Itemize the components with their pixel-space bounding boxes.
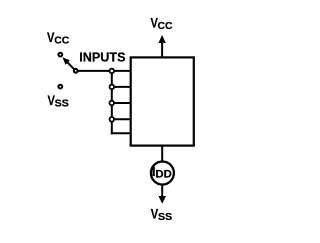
wire: input 4 stub <box>112 118 131 120</box>
switch blade wire <box>68 63 76 71</box>
label Vcc (switch upper contact) <box>47 30 70 47</box>
svg-text:CC: CC <box>158 21 174 32</box>
Vss contact circle <box>58 85 62 89</box>
svg-text:INPUTS: INPUTS <box>79 50 126 65</box>
current meter IDD circle <box>151 162 174 185</box>
DUT input pin circle 2 <box>110 85 115 90</box>
wire: input 3 stub <box>112 102 131 104</box>
DUT input pin circle 3 <box>110 101 115 106</box>
wire: Vcc supply lead <box>161 42 163 58</box>
svg-text:CC: CC <box>54 35 70 46</box>
arrow: Vss down arrowhead <box>158 196 166 204</box>
svg-text:SS: SS <box>55 99 69 110</box>
switch blade arrowhead <box>62 57 70 65</box>
DUT box <box>131 57 194 145</box>
svg-text:SS: SS <box>158 212 172 223</box>
svg-text:DD: DD <box>155 169 171 181</box>
label Vcc (top) <box>151 15 174 32</box>
wire: switch output to DUT input 1 <box>76 70 131 72</box>
label Vss (switch lower contact) <box>48 93 70 110</box>
label Vss (bottom) <box>151 207 173 224</box>
DUT input pin circle 4 <box>110 117 115 122</box>
DUT input pin circle 1 <box>110 69 115 74</box>
label Idd <box>152 164 172 180</box>
wire: DUT to Idd meter <box>161 146 163 162</box>
switch pivot contact circle <box>74 69 78 73</box>
Vcc contact circle <box>58 53 62 57</box>
wire: vertical input bus <box>111 71 113 134</box>
wire: input 5 bottom stub <box>111 132 131 134</box>
wire: Idd meter to Vss arrow <box>161 185 163 198</box>
arrow: Vcc up arrowhead <box>158 35 165 43</box>
wire: input 2 stub <box>112 86 131 88</box>
